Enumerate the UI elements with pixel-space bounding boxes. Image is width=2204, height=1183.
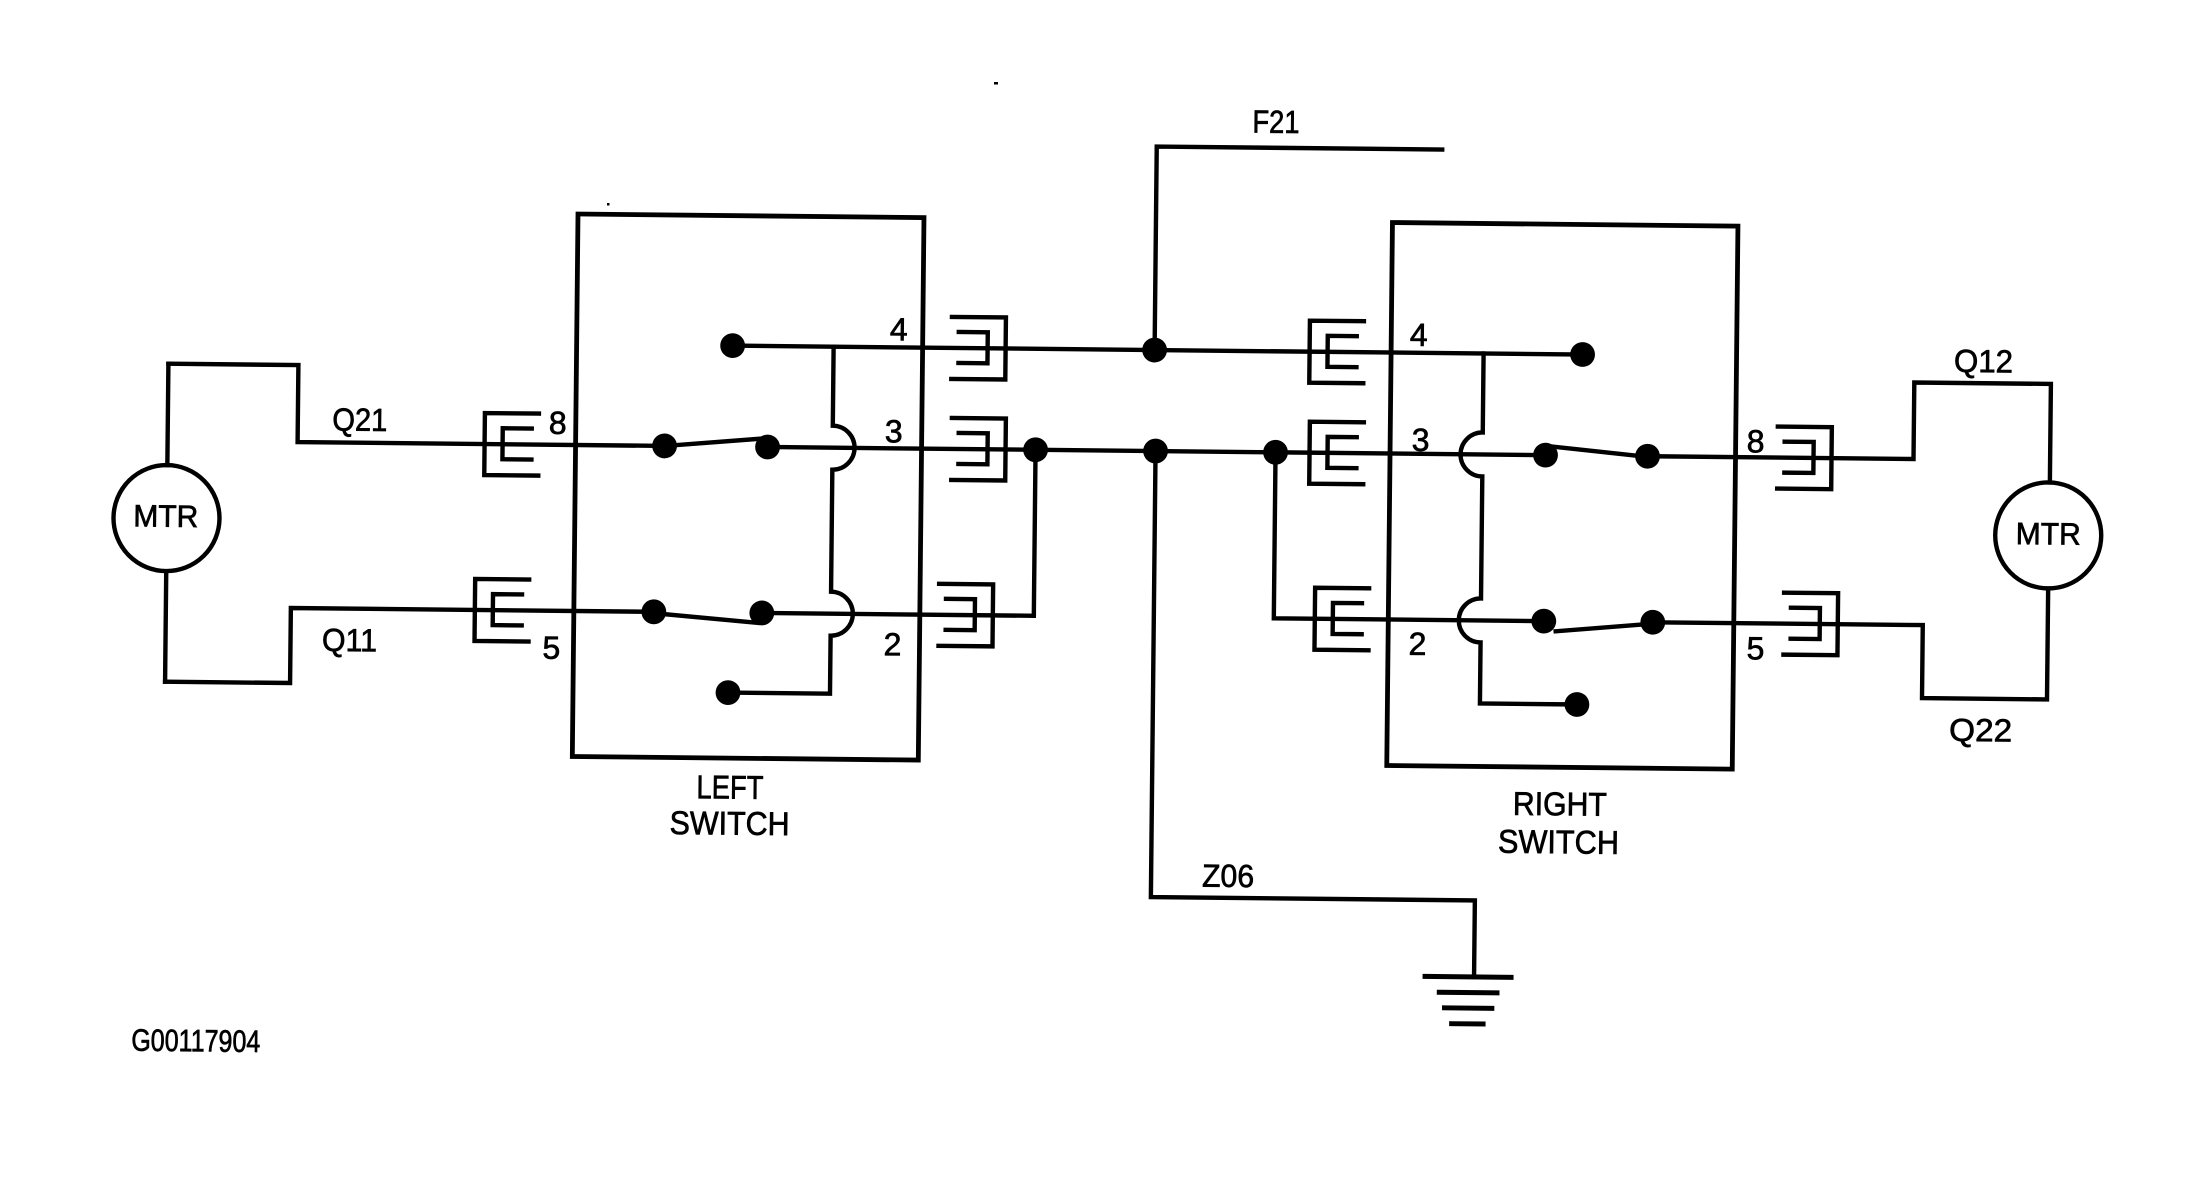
svg-text:G00117904: G00117904	[131, 1023, 260, 1059]
node: left switch pin4 dot	[720, 333, 745, 358]
connector: left switch row4 output (type B)	[951, 317, 1006, 380]
wire row3: right pivot to pin 8 and motor	[1647, 380, 2051, 483]
svg-text:MTR: MTR	[133, 498, 198, 534]
node: right switch row3 left dot	[1533, 443, 1558, 468]
node: junction dot F21/row4	[1142, 338, 1167, 363]
scan speck	[607, 203, 610, 206]
node A: junction dot D1	[1023, 437, 1048, 462]
wire: row3 junction down to right switch row2	[1274, 452, 1546, 621]
node: left switch row3 contact dot	[755, 434, 780, 459]
connector: right switch row2 input (type A)	[1314, 588, 1369, 651]
svg-text:Q12: Q12	[1954, 343, 2013, 380]
node: right switch row2 left dot	[1531, 609, 1556, 634]
left switch internal link with hops	[728, 346, 856, 694]
wire row 2: left contact to junction under D1	[762, 613, 1034, 616]
right switch internal link with hops	[1458, 353, 1581, 704]
node: left switch common dot	[715, 680, 740, 705]
node: right switch pin4 dot	[1570, 342, 1595, 367]
left switch box	[572, 214, 924, 760]
connector: right switch row3 input (type A)	[1309, 422, 1364, 485]
node: right switch common dot	[1564, 692, 1589, 717]
scan speck	[994, 82, 998, 85]
svg-text:5: 5	[1746, 630, 1764, 666]
wire: left MTR top lead up	[167, 364, 168, 465]
node: left switch row2 pivot dot	[641, 599, 666, 624]
wire: row2 output up to row3 junction	[1034, 450, 1036, 616]
right switch blade row 2	[1556, 623, 1646, 632]
node: right switch row3 pivot dot	[1635, 444, 1660, 469]
wire row 3: left contact to right switch pivot	[768, 447, 1546, 455]
svg-text:8: 8	[549, 405, 567, 441]
left switch blade row 3	[666, 437, 764, 447]
node: left switch row3 pivot dot	[652, 433, 677, 458]
svg-text:4: 4	[1410, 317, 1428, 353]
wire Q21: MTR to left switch pin 8 row	[168, 364, 666, 446]
wire F21 feed	[1155, 147, 1443, 353]
connector: left switch row3 output (type B)	[951, 418, 1006, 481]
svg-text:4: 4	[890, 311, 908, 347]
wire row2: right pivot to pin 5 and motor	[1652, 584, 2048, 699]
connector 8 (right, type B)	[1777, 427, 1832, 490]
left switch blade row 2	[656, 613, 758, 623]
svg-text:Q11: Q11	[322, 622, 377, 659]
svg-text:MTR: MTR	[2016, 516, 2081, 552]
motor MTR left	[113, 465, 220, 572]
connector 5 (Q11 harness connector, type A)	[475, 579, 530, 642]
svg-text:Q22: Q22	[1949, 712, 2012, 749]
connector 5 (right, type B)	[1783, 593, 1838, 656]
wire Q11: MTR to left switch pin 5 row	[165, 607, 654, 687]
svg-text:2: 2	[1408, 626, 1426, 662]
connector: right switch row4 input (type A)	[1309, 321, 1364, 384]
node: junction dot D3	[1263, 440, 1288, 465]
wire Z06 to ground	[1150, 451, 1479, 977]
svg-text:Z06: Z06	[1202, 858, 1254, 895]
ground	[1425, 976, 1511, 1024]
svg-text:SWITCH: SWITCH	[1498, 823, 1619, 861]
svg-text:SWITCH: SWITCH	[669, 804, 789, 842]
motor MTR right	[1995, 482, 2102, 589]
svg-text:RIGHT: RIGHT	[1513, 785, 1607, 823]
wire row 4: pin4 dot to right switch	[733, 346, 1583, 355]
svg-text:Q21: Q21	[332, 401, 387, 438]
node: left switch row2 contact dot	[749, 600, 774, 625]
connector 8 (Q21 harness connector, type A)	[484, 413, 539, 476]
right switch box	[1387, 223, 1738, 770]
connector: left switch row2 output (type B)	[938, 584, 993, 647]
svg-text:2: 2	[883, 626, 901, 662]
node: right switch row2 pivot dot	[1640, 610, 1665, 635]
svg-text:3: 3	[1412, 422, 1430, 458]
svg-text:LEFT: LEFT	[696, 768, 763, 806]
svg-text:3: 3	[885, 413, 903, 449]
node: junction dot Z06/row3	[1143, 439, 1168, 464]
svg-text:8: 8	[1747, 423, 1765, 459]
svg-text:F21: F21	[1252, 104, 1299, 140]
right switch blade row 3	[1549, 446, 1644, 456]
svg-text:5: 5	[542, 630, 560, 666]
wire: left MTR bottom lead down	[165, 571, 166, 681]
